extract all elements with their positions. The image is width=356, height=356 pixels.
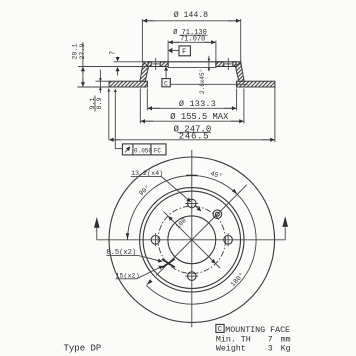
- datum F frame: [168, 46, 190, 57]
- bore left edge: [167, 62, 169, 68]
- bore bottom visible edge: [168, 66, 216, 68]
- diagonal centerline 45deg: [156, 185, 247, 276]
- bolt circle D100 dash-dot: [158, 206, 225, 273]
- angle arc arrow SW: [146, 279, 152, 285]
- horizontal centerline: [97, 239, 285, 241]
- mounting face extension line: [78, 66, 149, 68]
- bore right edge: [215, 62, 217, 68]
- dimension 28.1/27.9 (hat height): [72, 42, 88, 87]
- hat wall left hatched: [140, 62, 149, 81]
- dimension D133.3: [147, 89, 236, 111]
- hat plate block right (bore to bolt hole) hatched: [216, 62, 224, 67]
- flange right hatched: [237, 81, 275, 87]
- mounting face (plate bottom) right: [216, 66, 236, 68]
- svg-text:Ø 155.5 MAX: Ø 155.5 MAX: [170, 112, 229, 122]
- svg-text:Ø 144.8: Ø 144.8: [174, 10, 208, 20]
- bolt hole N: [188, 199, 197, 208]
- svg-text:27.9: 27.9: [79, 44, 87, 60]
- svg-text:15(x2): 15(x2): [116, 273, 140, 281]
- outer circle D247: [109, 157, 275, 323]
- circle D144.8: [143, 191, 240, 288]
- svg-text:Type DP: Type DP: [64, 343, 102, 353]
- svg-text:Weight: Weight: [216, 344, 246, 354]
- hat plate sliver left of hole: [148, 62, 151, 67]
- svg-text:C: C: [218, 326, 222, 334]
- label 13.2(x4): [131, 170, 201, 211]
- dimension D155.5 MAX: [140, 89, 244, 124]
- angular dimension arc: [128, 176, 257, 305]
- screw hole NE inner: [216, 212, 220, 216]
- svg-text:7: 7: [268, 335, 273, 344]
- bolt hole centerline tick left: [155, 58, 157, 70]
- bolt hole edge lines right: [223, 62, 225, 67]
- hat wall right hatched: [235, 62, 244, 81]
- svg-text:71.070: 71.070: [180, 36, 205, 44]
- svg-text:7: 7: [110, 51, 118, 55]
- svg-text:Ø 133.3: Ø 133.3: [179, 99, 216, 109]
- flange top extension line: [96, 80, 110, 82]
- label 15(x2): [116, 266, 163, 281]
- hat plate sliver right of hole: [233, 62, 236, 67]
- friction shoulder edge right: [236, 81, 238, 87]
- far side screw hole X mark: [162, 259, 175, 268]
- svg-text:Min. TH: Min. TH: [216, 334, 251, 344]
- label 8.5(x2): [106, 249, 162, 262]
- dimension 9.1/8.9 (flange thickness): [89, 70, 104, 112]
- angle arc tick N: [186, 174, 197, 176]
- bolt hole E: [224, 236, 233, 245]
- bolt hole W: [151, 236, 160, 245]
- bolt hole centerline tick right: [227, 58, 229, 70]
- circle D155.5: [140, 188, 244, 292]
- vertical centerline: [191, 150, 193, 327]
- flange bottom extension line: [78, 86, 110, 88]
- angle arc arrow W: [126, 233, 129, 239]
- runout feature control frame: [114, 89, 166, 155]
- bolt hole edge lines left: [150, 62, 152, 67]
- section arrow right: [282, 216, 288, 240]
- svg-text:Kg: Kg: [281, 345, 291, 354]
- flange left hatched: [109, 81, 147, 87]
- svg-text:8.9: 8.9: [96, 97, 104, 109]
- hat top surface line: [143, 61, 241, 63]
- mounting face (plate bottom) left: [149, 66, 169, 68]
- dimension D144.8: [142, 10, 240, 65]
- dimension 7 (plate thickness): [110, 51, 144, 76]
- svg-text:mm: mm: [281, 335, 291, 344]
- svg-text:2.6x45°: 2.6x45°: [199, 69, 206, 94]
- chamfer callout 2.6x45: [199, 56, 210, 94]
- dimension 100 bolt circle: [164, 212, 221, 269]
- svg-text:0.050: 0.050: [134, 147, 152, 154]
- friction shoulder edge left: [146, 81, 148, 87]
- section arrow left: [94, 217, 100, 240]
- dimension D71.130/71.070: [168, 28, 216, 62]
- note block: C MOUNTING FACE: [216, 324, 291, 353]
- svg-text:3: 3: [268, 345, 273, 354]
- svg-text:F: F: [182, 49, 186, 57]
- dimension D247.0/246.5: [108, 87, 275, 142]
- angle arc arrow NE: [232, 189, 237, 194]
- svg-text:246.5: 246.5: [179, 131, 210, 141]
- svg-text:FC: FC: [154, 147, 162, 154]
- svg-text:MOUNTING FACE: MOUNTING FACE: [225, 326, 290, 335]
- bolt hole S: [188, 272, 197, 281]
- svg-text:C: C: [164, 80, 168, 87]
- hat plate block left (bolt hole to bore) hatched: [160, 62, 168, 67]
- bore circle D71: [168, 216, 216, 264]
- screw hole NE outer: [213, 210, 222, 219]
- datum C frame: [162, 67, 248, 88]
